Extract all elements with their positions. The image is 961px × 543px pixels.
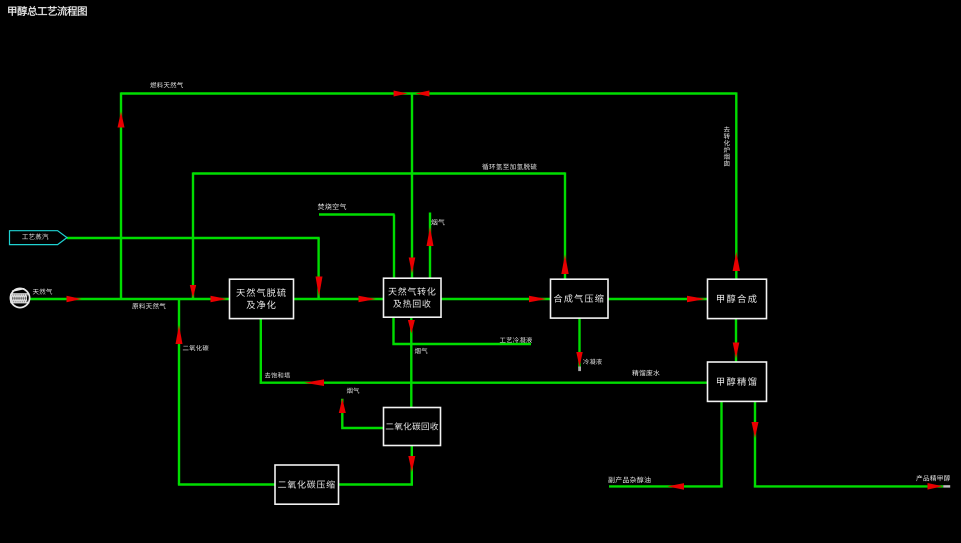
process steam inlet flag [10,231,68,245]
wire purge gas riser [735,92,737,279]
wire product methanol line [754,485,943,487]
wire reformer to compressor connector [441,298,551,300]
arrow vent gas up [339,399,346,414]
label 天然气 [33,288,52,294]
label 冷凝液 [583,359,602,365]
arrow feed into desulfurizer [211,296,228,303]
wire distillation bottoms drop [720,401,722,487]
arrow syngas into synthesis [687,296,706,303]
wire distillation waste water line [260,382,708,384]
wire CO2 line to compressor suction [338,483,413,485]
wire desulf to reformer connector [293,298,384,300]
arrow waste water left [305,379,325,386]
wire recycle H2 down-leg [192,172,194,299]
arrow process steam down [316,277,323,297]
wire fuel gas riser left [120,92,122,300]
arrow CO2 down to compressor [408,456,415,472]
unit box 二氧化碳压缩 [275,465,339,504]
wire natural gas feed line [30,298,230,300]
unit box 天然气转化及热回收 [384,278,442,317]
label 工艺冷凝液 [500,337,532,343]
label 去饱和塔 [265,372,290,378]
label 循环氢至加氢脱硫 [482,163,537,169]
arrow fuel gas down into reformer [409,258,416,274]
wire CO2 compressor discharge line [178,483,275,485]
wire CO2 recycle riser [178,299,180,485]
wire process steam drop [317,238,319,300]
wire recycle H2 riser [564,172,566,279]
unit box 天然气脱硫及净化 [230,279,294,318]
arrow recycle H2 up [561,255,568,275]
wire process steam line [67,237,320,239]
unit box 甲醇精馏 [708,362,767,401]
wire CO2 recovery bottom drop [411,445,413,485]
label 精馏废水 [632,370,659,376]
wire condensate drain from compressor [578,318,580,368]
wire waste water up-leg to purifier [260,318,262,384]
arrow purge gas left into tee [415,91,429,97]
wire product drop [754,401,756,487]
arrow product down [752,422,759,438]
end tick product line [943,485,950,487]
arrow flue gas up vent [427,227,434,246]
arrow syngas into compressor [529,296,547,303]
wire fuel gas drop to reformer [411,94,413,279]
arrow fuel gas up [118,112,125,128]
label 副产品杂醇油 [608,476,650,482]
wire compressor to synthesis connector [608,298,708,300]
natural gas source circle symbol [10,288,29,307]
wire vent gas from CO2 recovery [342,399,384,428]
wire process condensate line [394,317,532,344]
label 原料天然气 [132,303,165,309]
wire flue gas to CO2 recovery [410,317,412,408]
wire fuel gas header [121,92,736,94]
wire flue gas vent above reformer [429,213,431,279]
label 焚烧空气 [318,203,346,210]
end tick condensate drain [578,367,581,372]
wire recycle H2 header [193,172,565,174]
wire combustion air drop [393,215,395,279]
arrow fuel gas right into tee [394,91,408,97]
arrow natural gas feed right [67,296,82,303]
unit box 合成气压缩 [551,279,609,318]
arrow product methanol right [928,483,943,490]
arrow CO2 recycle up [176,325,183,344]
label 去转化炉烟囱 vertical [724,126,730,166]
arrow fusel oil left [668,483,685,490]
wire synthesis to distillation drop [735,318,737,362]
label 烟气 vent from CO2 recovery [347,388,360,394]
arrow recycle H2 down into feed [190,285,196,298]
label 工艺蒸汽 [22,234,48,240]
wire combustion air line [319,213,395,215]
arrow crude methanol down [733,343,740,359]
label 二氧化碳 [183,345,209,351]
label 产品精甲醇 [916,475,950,481]
arrow condensate down [576,352,582,367]
label title 甲醇总工艺流程图 [8,6,86,16]
unit box 甲醇合成 [708,279,767,318]
label 烟气 top vent [431,219,444,225]
arrow purge gas up [733,252,740,271]
label 烟气 to CO2 recovery [415,348,428,354]
unit box 二氧化碳回收 [384,408,441,446]
wire fusel oil line [609,485,723,487]
arrow gas into reformer [359,296,377,303]
arrow flue gas down below reformer [408,320,415,334]
label 燃料天然气 [150,82,183,88]
